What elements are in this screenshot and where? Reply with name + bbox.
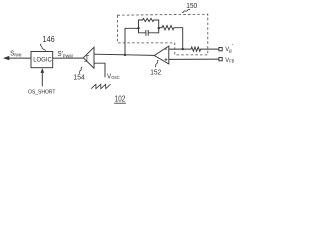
svg-text:LOGIC: LOGIC [33,56,52,63]
svg-text:VFB: VFB [225,57,234,64]
svg-text:Vg′: Vg′ [225,44,232,53]
svg-text:OS_SHORT: OS_SHORT [28,89,56,95]
svg-text:152: 152 [150,67,161,76]
svg-text:146: 146 [43,35,56,44]
svg-text:102: 102 [115,94,126,104]
svg-text:VOSC: VOSC [107,73,120,80]
svg-text:150: 150 [186,1,197,10]
svg-text:154: 154 [74,73,85,82]
